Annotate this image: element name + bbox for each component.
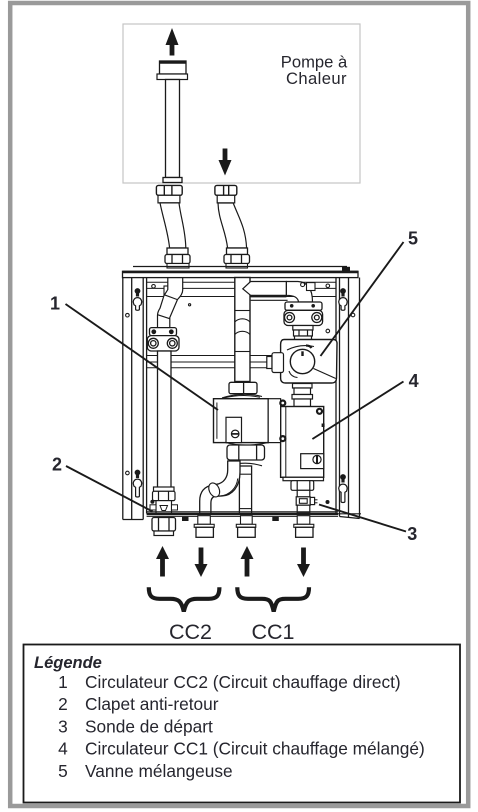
flexible hose right bbox=[218, 203, 247, 248]
CC1 nameplate with screw bbox=[301, 454, 324, 469]
svg-text:5: 5 bbox=[58, 761, 68, 781]
pipe bottom thick edge bbox=[251, 295, 287, 297]
small tab below deck left bbox=[182, 517, 189, 521]
bottom arrow down 1 bbox=[195, 548, 208, 578]
CC1 bottom flange bbox=[283, 477, 324, 497]
hose lower fitting right bbox=[224, 248, 250, 268]
fitting below valve bbox=[292, 384, 313, 407]
stub 2 below deck bbox=[194, 516, 214, 538]
valve knob circle bbox=[290, 349, 314, 373]
right union bracket bbox=[284, 302, 323, 326]
stub 1 check valve below deck bbox=[152, 518, 176, 536]
brace CC1 bbox=[237, 587, 309, 611]
elbow sleeve cap bbox=[207, 481, 222, 498]
svg-text:Clapet anti-retour: Clapet anti-retour bbox=[85, 694, 219, 714]
mixing valve body (item 5) bbox=[281, 340, 337, 384]
stub 3 below deck bbox=[236, 516, 256, 538]
elbow top flange bbox=[307, 283, 316, 291]
svg-text:1: 1 bbox=[50, 293, 60, 313]
deck bottom rail right extension bbox=[338, 513, 361, 515]
keyhole slot bottom-right bbox=[339, 474, 347, 502]
deck bottom rail bbox=[147, 511, 338, 513]
brace CC2 bbox=[149, 587, 220, 611]
keyhole slot top-right bbox=[339, 288, 347, 310]
small tab below deck right bbox=[272, 517, 279, 521]
circulator CC1 box (item 4) bbox=[281, 407, 324, 478]
hex union nut left top bbox=[156, 185, 182, 203]
circulator CC2 pump body bbox=[214, 399, 281, 443]
hose lower fitting left bbox=[165, 248, 190, 268]
svg-text:4: 4 bbox=[409, 371, 419, 391]
check valve (item 2) bbox=[150, 487, 178, 514]
deck small black tab right bbox=[342, 267, 350, 272]
svg-text:Sonde de départ: Sonde de départ bbox=[85, 716, 213, 736]
arrow up (flow to heat pump) bbox=[166, 28, 179, 56]
left union bracket bbox=[147, 328, 179, 351]
CC2 pump bottom nut bbox=[226, 443, 268, 466]
pompe à chaleur box bbox=[123, 24, 360, 183]
svg-text:3: 3 bbox=[58, 716, 68, 736]
leader line 2 bbox=[66, 466, 153, 512]
right wall flange bbox=[336, 278, 360, 519]
unit back panel mid rails bbox=[147, 356, 336, 368]
circulator CC2 pump (item 1) top nut bbox=[222, 382, 262, 398]
fitting below right bracket bbox=[293, 326, 313, 342]
svg-text:CC1: CC1 bbox=[251, 620, 294, 644]
svg-text:1: 1 bbox=[58, 672, 68, 692]
unit back panel top rails bbox=[147, 282, 336, 296]
left wall flange bbox=[123, 278, 147, 520]
straight pipe below pump bbox=[239, 466, 251, 514]
top deck shelf bbox=[123, 267, 359, 278]
svg-text:4: 4 bbox=[58, 739, 68, 759]
upper-left clip tab bbox=[164, 286, 170, 297]
line under pipe bbox=[251, 299, 288, 301]
central vertical pipe bbox=[235, 278, 250, 382]
svg-text:2: 2 bbox=[58, 694, 68, 714]
valve comma marks bbox=[306, 346, 312, 349]
svg-text:Légende: Légende bbox=[34, 654, 102, 672]
flexible hose left bbox=[160, 203, 186, 248]
left vertical pipe to check valve bbox=[158, 351, 172, 487]
valve diagonal line bbox=[314, 369, 336, 379]
pipe union sleeve arcs bbox=[235, 319, 250, 335]
elbow screw dot bbox=[301, 283, 305, 287]
leader line 3 bbox=[319, 505, 406, 532]
svg-text:Vanne mélangeuse: Vanne mélangeuse bbox=[85, 761, 233, 781]
CC1 screw top-right bbox=[317, 409, 322, 414]
svg-text:Circulateur CC2 (Circuit chauf: Circulateur CC2 (Circuit chauffage direc… bbox=[85, 672, 401, 692]
svg-text:CC2: CC2 bbox=[169, 620, 212, 644]
svg-text:5: 5 bbox=[408, 229, 418, 249]
CC1 mounting screws left bbox=[280, 401, 285, 442]
valve left port bbox=[267, 353, 284, 373]
sonde de départ (item 3) bbox=[296, 497, 317, 513]
stub 4 below deck bbox=[294, 516, 314, 538]
upper-left segmented hose bbox=[158, 278, 183, 328]
pipe cap fitting top bbox=[157, 61, 188, 80]
valve knob tick bbox=[301, 351, 303, 356]
hose joint lines bbox=[164, 295, 177, 300]
CC2 pump screw bbox=[231, 430, 239, 438]
keyhole slot top-left bbox=[133, 288, 141, 310]
label Pompe à Chaleur bbox=[281, 53, 348, 89]
S elbow pipe to stub 2 bbox=[200, 461, 240, 514]
arrow down (return flow) bbox=[219, 149, 232, 176]
bottom arrow up 2 bbox=[241, 546, 254, 577]
right elbow down bbox=[286, 282, 312, 303]
leader line 1 bbox=[66, 304, 219, 410]
panel screw holes bbox=[126, 284, 355, 475]
legend box bbox=[24, 645, 461, 803]
svg-text:Chaleur: Chaleur bbox=[286, 69, 347, 88]
leader line 4 bbox=[312, 382, 403, 440]
bottom arrow up 1 bbox=[156, 546, 169, 577]
bottom arrow down 2 bbox=[297, 548, 310, 578]
hex union nut right top bbox=[215, 185, 237, 203]
valve inner top arc bbox=[287, 346, 314, 350]
leader line 5 bbox=[321, 242, 404, 356]
horizontal pipe to elbow (pointed left end) bbox=[243, 282, 287, 296]
svg-text:Circulateur CC1 (Circuit chauf: Circulateur CC1 (Circuit chauffage mélan… bbox=[85, 739, 425, 759]
svg-text:3: 3 bbox=[407, 524, 417, 544]
svg-text:2: 2 bbox=[52, 455, 62, 475]
keyhole slot bottom-left bbox=[133, 470, 141, 497]
vertical pipe from heat pump bbox=[163, 80, 182, 183]
elbow joint arc bbox=[221, 479, 238, 496]
panel screw dot bottom-right bbox=[326, 500, 330, 504]
